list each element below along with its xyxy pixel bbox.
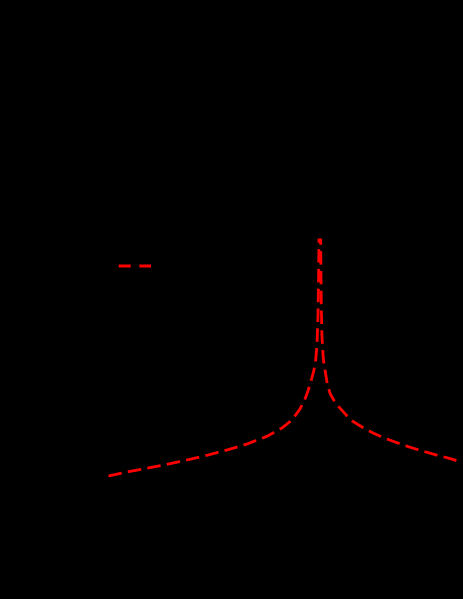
legend dashed red line sample (119, 265, 151, 268)
resonance curve: left branch rising to vertical asymptote (109, 239, 320, 477)
resonance curve: right branch descending from vertical asymptote (321, 239, 457, 461)
